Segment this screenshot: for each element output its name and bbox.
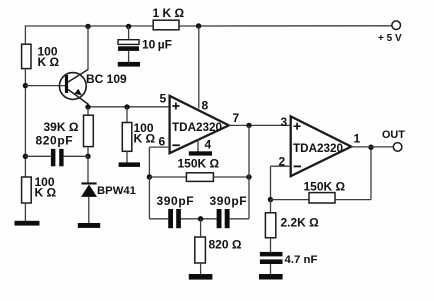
wire 820pF left lead [25,155,51,157]
junction 2.2K node [268,197,273,202]
junction 150K left node [147,174,152,179]
op-amp U1 minus sign [172,144,179,146]
resistor 150K-2 body [309,193,335,203]
resistor 100K top-left body [22,44,31,68]
svg-text:5: 5 [160,92,167,106]
svg-text:K Ω: K Ω [38,55,60,69]
wire left rail lower [24,203,26,222]
wire 150K-2 right lead [335,199,371,201]
svg-text:+ 5 V: + 5 V [378,33,402,44]
wire pin4 lead [197,139,199,151]
wire 820ohm bottom lead [200,263,202,274]
resistor 2.2K body [265,213,275,238]
junction U2 output node [368,145,373,150]
svg-text:150K Ω: 150K Ω [304,180,346,194]
capacitor 4.7nF plate top [260,252,283,257]
ground under photodiode [78,223,100,228]
wire pin6 vertical [148,147,150,177]
wire pin8 vertical [198,26,200,109]
svg-text:TDA2320: TDA2320 [293,142,344,155]
ground under 4.7nF [259,274,283,280]
svg-text:820 Ω: 820 Ω [209,238,242,252]
junction U1 output node [246,123,251,128]
wire pin6 horizontal [149,146,169,148]
svg-text:3: 3 [281,115,288,129]
junction base node [23,83,28,88]
capacitor 820pF plate left [51,149,56,166]
terminal +5V circle [392,21,401,30]
svg-text:4.7 nF: 4.7 nF [285,254,318,266]
svg-text:K Ω: K Ω [35,185,57,199]
resistor 100K bottom-left body [22,177,32,203]
photodiode D1 cathode bar [81,182,96,184]
ground pin4 [189,151,212,155]
capacitor 390pF-2 plate right [225,209,230,228]
svg-text:2.2K Ω: 2.2K Ω [281,216,320,230]
capacitor 4.7nF plate bottom [260,259,283,264]
wire 390pF row middle [181,218,217,220]
svg-text:BPW41: BPW41 [97,185,136,197]
wire 150K-1 right lead [213,176,249,178]
resistor 39K body [84,115,94,146]
resistor 820 body [195,237,206,263]
wire photodiode bottom lead [88,197,90,223]
junction pin8/top-rail [196,23,201,28]
terminal OUT circle [393,143,402,152]
wire 150K-2 left lead [271,199,310,201]
svg-text:390pF: 390pF [157,194,195,208]
resistor 100K mid body [122,123,132,152]
svg-text:39K Ω: 39K Ω [44,120,79,134]
wire 4.7nF bottom lead [270,264,272,274]
wire 10uF top lead [128,26,130,40]
junction 820pF right node [85,154,90,159]
wire U2 output [351,146,393,148]
capacitor 390pF-1 plate left [168,209,173,228]
svg-text:1: 1 [354,132,361,146]
op-amp U2 plus sign [294,123,301,130]
ground under 10uF [118,62,140,67]
svg-text:390pF: 390pF [210,194,248,208]
transistor Q1 emitter arrow [74,89,81,96]
capacitor 10uF plate bottom [118,46,139,51]
wire 39K bottom lead [87,147,89,157]
wire emitter diagonal [68,90,88,108]
wire top rail left segment [25,25,153,27]
wire 2.2K bottom lead [270,238,272,252]
junction 10uF/top-rail [126,24,131,29]
junction 390pF middle node [198,216,203,221]
wire base [25,85,66,87]
wire 2.2K top lead [270,200,272,213]
wire left rail middle [24,69,26,177]
wire feedback U2 vertical [370,147,372,200]
capacitor 390pF-2 plate left [217,209,222,228]
wire pin2 horizontal [271,165,291,167]
wire 100K-mid bottom lead [126,151,128,162]
capacitor 390pF-1 plate right [176,209,181,228]
transistor Q1 base bar [65,75,68,93]
wire collector vertical [87,26,89,70]
junction 820pF left node [23,154,28,159]
svg-text:4: 4 [205,138,212,152]
wire 820ohm top lead [200,219,202,237]
wire 820pF right lead [64,155,88,157]
wire feedback right vertical [248,125,250,218]
wire 39K top lead [87,107,89,115]
wire 150K-1 left lead [149,176,186,178]
svg-text:10 µF: 10 µF [142,37,172,51]
svg-text:150K Ω: 150K Ω [178,157,220,171]
svg-text:8: 8 [202,99,209,113]
wire top rail right segment [179,25,392,27]
svg-text:7: 7 [233,111,240,125]
ground under 100K mid [119,162,140,167]
wire left rail upper [24,25,26,44]
wire collector diagonal [68,70,88,83]
wire emitter rail to pin5 [88,106,170,108]
wire 10uF bottom lead [128,51,130,62]
svg-text:BC 109: BC 109 [86,72,127,86]
op-amp U2 triangle [291,116,352,176]
ground under 820ohm [189,274,213,280]
ground bottom-left [15,221,40,226]
wire pin2 vertical [270,166,272,199]
svg-text:820pF: 820pF [36,134,74,148]
op-amp U1 plus sign [172,103,179,110]
junction 100K-mid node [124,104,129,109]
junction emitter node [85,104,90,109]
svg-text:K Ω: K Ω [134,132,156,146]
junction 150K right node [246,174,251,179]
svg-text:1 K Ω: 1 K Ω [153,6,185,20]
wire feedback left vertical [148,177,150,219]
resistor 150K-1 body [186,173,213,182]
photodiode D1 triangle [81,185,97,197]
svg-text:OUT: OUT [382,129,405,141]
transistor Q1 circle [59,73,86,100]
wire 390pF row right lead [230,218,249,220]
op-amp U1 triangle [170,96,229,153]
wire photodiode top lead [87,156,89,182]
svg-text:TDA2320: TDA2320 [172,121,223,134]
resistor 1K body [153,20,179,30]
junction collector/top-rail [85,24,90,29]
wire U1 output [229,124,291,126]
capacitor 820pF plate right [59,149,63,166]
wire 390pF row left lead [149,218,168,220]
capacitor 10uF plate top [118,40,139,45]
op-amp U2 minus sign [294,165,301,167]
wire 100K-mid top lead [126,107,128,123]
